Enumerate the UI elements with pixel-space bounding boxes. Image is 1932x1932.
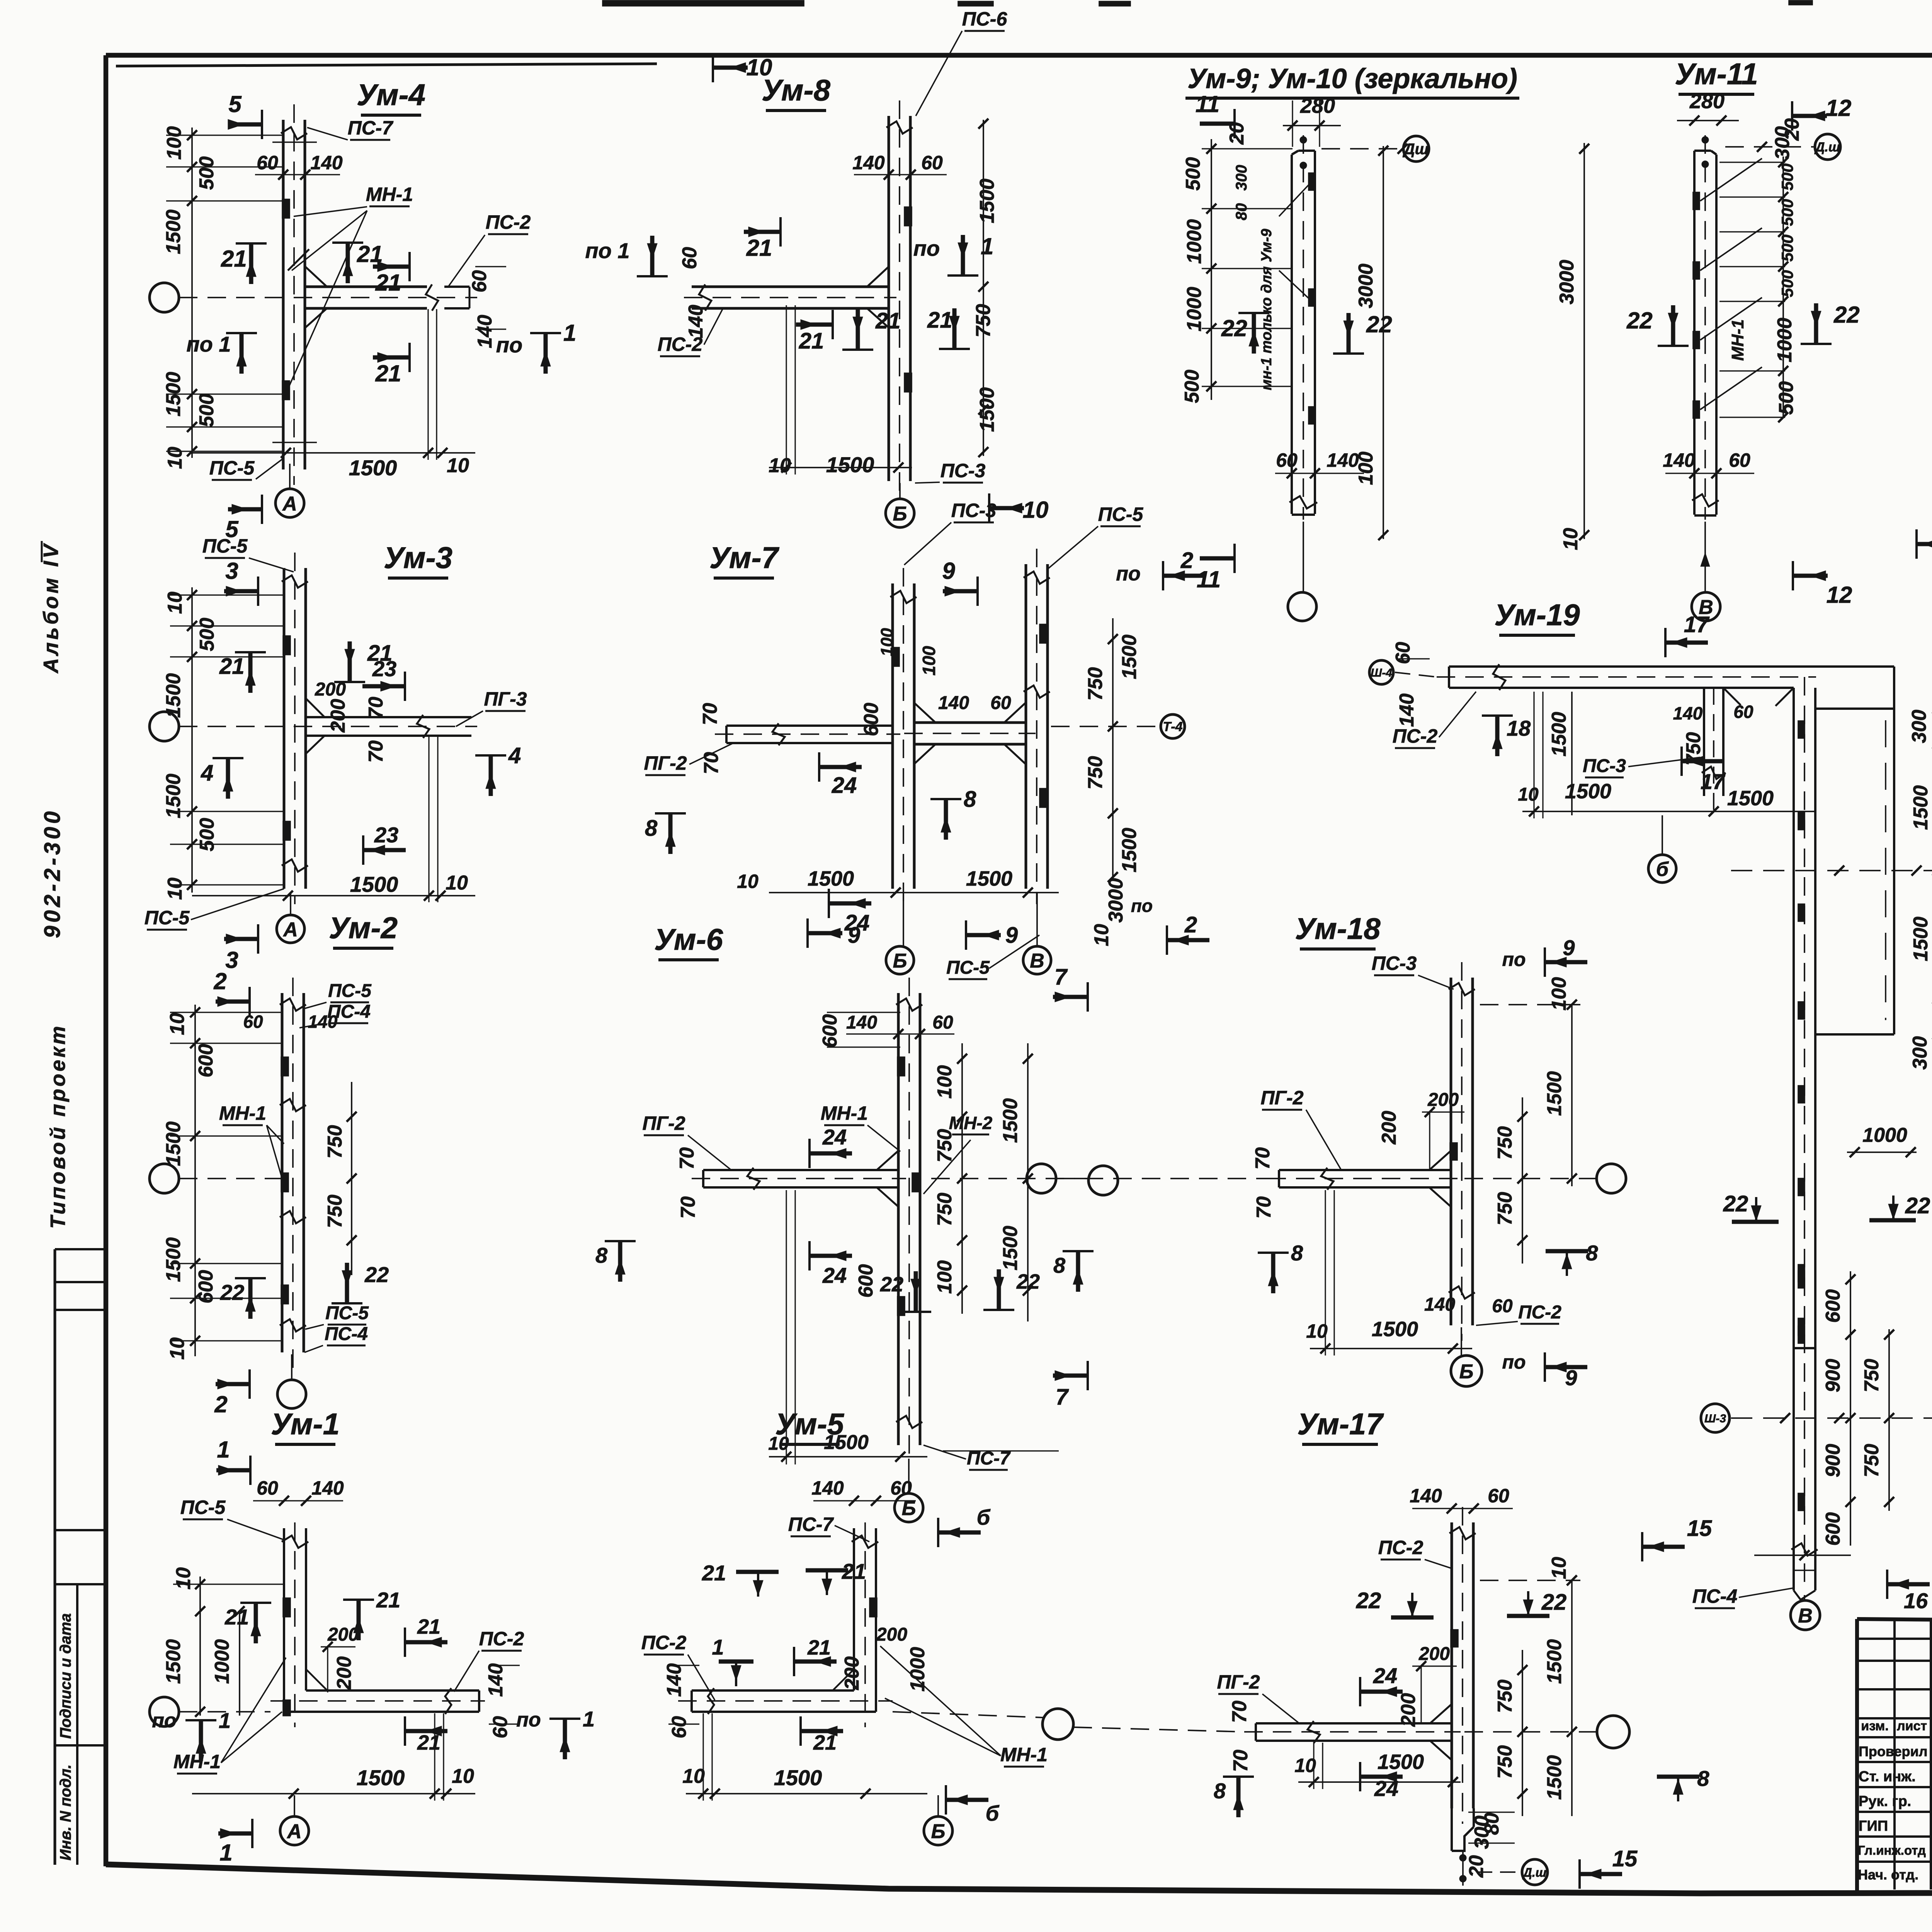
svg-text:500: 500 <box>1778 235 1796 262</box>
svg-text:10: 10 <box>172 1567 195 1590</box>
Ум-1 axis circle А <box>280 1816 309 1845</box>
svg-text:60: 60 <box>921 152 943 173</box>
Ум-5 horizontal wall <box>692 1711 876 1713</box>
Ум-5 axis circle Б <box>924 1816 952 1845</box>
svg-text:11: 11 <box>1197 566 1221 592</box>
svg-text:750: 750 <box>1494 1126 1516 1160</box>
svg-text:1: 1 <box>219 1708 231 1733</box>
svg-text:20: 20 <box>1226 122 1248 145</box>
svg-text:Б: Б <box>893 950 907 972</box>
Ум-9 wall bottom stub <box>1291 495 1293 514</box>
Ум-8 axis circle Б <box>886 499 914 527</box>
Ум-7 right dims <box>1112 618 1114 881</box>
Ум-2 mark 2 top <box>216 1000 250 1004</box>
Ум-1 axis circle left <box>150 1697 179 1726</box>
svg-text:ПГ-3: ПГ-3 <box>484 688 527 710</box>
svg-text:24: 24 <box>822 1125 847 1149</box>
Ум-1 horizontal wall <box>284 1711 479 1713</box>
svg-text:10: 10 <box>447 454 469 477</box>
svg-text:60: 60 <box>1276 449 1298 471</box>
svg-text:1500: 1500 <box>357 1765 405 1790</box>
Ум-5 mark б bottom <box>945 1785 947 1815</box>
svg-text:70: 70 <box>700 752 723 774</box>
Ум-11 right dim chain <box>1782 156 1784 417</box>
Ум-6 mark 9 top <box>966 933 1001 937</box>
svg-text:24: 24 <box>1373 1663 1397 1688</box>
Ум-8 section mark 10 top <box>713 66 748 70</box>
svg-text:ПС-2: ПС-2 <box>641 1632 687 1653</box>
svg-text:2: 2 <box>1184 912 1197 937</box>
svg-text:8: 8 <box>1586 1241 1598 1265</box>
svg-text:В: В <box>1030 950 1044 972</box>
svg-text:7: 7 <box>1056 1384 1069 1410</box>
svg-text:1500: 1500 <box>162 1121 185 1166</box>
Ум-17 marks 8 <box>1236 1777 1241 1817</box>
Ум-7 cross wall <box>914 721 1026 724</box>
svg-text:140: 140 <box>1424 1294 1455 1315</box>
svg-text:8: 8 <box>595 1243 608 1267</box>
svg-text:21: 21 <box>842 1559 866 1583</box>
svg-text:21: 21 <box>219 654 245 679</box>
svg-text:А: А <box>282 918 298 941</box>
svg-text:22: 22 <box>1221 315 1247 341</box>
svg-text:10: 10 <box>1294 1755 1316 1776</box>
svg-text:по: по <box>1502 949 1526 970</box>
svg-text:500: 500 <box>1778 163 1796 190</box>
Ум-19 bottom dim line <box>1754 1554 1851 1556</box>
svg-text:16: 16 <box>1904 1588 1928 1613</box>
svg-text:А: А <box>282 493 297 515</box>
Ум-9 axis circle Дш <box>1403 136 1429 162</box>
svg-text:Ум-19: Ум-19 <box>1494 598 1580 632</box>
Ум-18 vertical wall <box>1450 978 1452 1325</box>
Ум-11 mark 12 top <box>1792 114 1827 118</box>
Ум-19 wall corner right end <box>1893 667 1895 709</box>
svg-text:3000: 3000 <box>1355 264 1377 308</box>
svg-text:10: 10 <box>446 872 468 894</box>
svg-text:1500: 1500 <box>350 872 398 896</box>
svg-text:500: 500 <box>1778 270 1796 297</box>
Ум-19 mark 15 <box>1641 1532 1643 1561</box>
svg-text:200: 200 <box>876 1624 907 1645</box>
svg-text:1500: 1500 <box>349 456 397 480</box>
Ум-17 right dim chain <box>1522 1650 1523 1816</box>
svg-text:1: 1 <box>583 1707 595 1731</box>
svg-text:1500: 1500 <box>966 867 1012 890</box>
svg-text:1000: 1000 <box>1862 1124 1907 1146</box>
svg-text:750: 750 <box>324 1125 346 1159</box>
Ум-4 axis circle <box>150 283 179 312</box>
Ум-7 left wall <box>891 583 894 889</box>
svg-text:ПС-6: ПС-6 <box>962 8 1008 30</box>
svg-text:Ш-4: Ш-4 <box>1371 667 1392 679</box>
svg-text:100: 100 <box>1548 977 1570 1011</box>
svg-text:60: 60 <box>1729 449 1750 471</box>
svg-text:4: 4 <box>201 760 213 786</box>
svg-text:80: 80 <box>1233 203 1250 221</box>
svg-text:750: 750 <box>972 304 995 338</box>
svg-text:1500: 1500 <box>162 1237 185 1282</box>
svg-text:А: А <box>286 1820 302 1843</box>
svg-text:9: 9 <box>1565 1366 1577 1390</box>
Ум-9 mark 11 top <box>1200 122 1235 126</box>
svg-text:70: 70 <box>676 1147 698 1170</box>
svg-text:ПС-2: ПС-2 <box>1518 1302 1561 1323</box>
svg-text:600: 600 <box>1822 1512 1844 1546</box>
Ум-19 top horizontal wall <box>1449 665 1894 668</box>
Ум-18 bottom labels <box>1310 1348 1472 1349</box>
Ум-4 section mark 5 bottom <box>228 507 262 512</box>
svg-text:Б: Б <box>931 1820 946 1843</box>
scan smudges top edge <box>603 1 804 6</box>
Ум-2 axis circle bottom <box>277 1380 306 1408</box>
svg-text:ПС-2: ПС-2 <box>1378 1537 1423 1558</box>
svg-text:140: 140 <box>852 152 885 173</box>
svg-text:1500: 1500 <box>999 1098 1022 1143</box>
svg-text:8: 8 <box>1697 1766 1709 1791</box>
svg-text:1500: 1500 <box>1118 634 1141 679</box>
Ум-19 axis circle Ш-3 <box>1701 1404 1730 1432</box>
svg-text:300: 300 <box>1771 126 1794 160</box>
Ум-3 mark 3 top <box>224 589 258 594</box>
Ум-1 bottom dim <box>192 1793 475 1794</box>
sheet bottom border <box>106 1864 1932 1893</box>
Ум-9 mark 11 bottom <box>1200 556 1235 561</box>
Ум-11 section marks 22 <box>1671 305 1675 346</box>
svg-text:ПС-7: ПС-7 <box>348 117 394 139</box>
svg-text:Ум-18: Ум-18 <box>1295 912 1381 946</box>
svg-text:Дш: Дш <box>1403 141 1429 158</box>
svg-text:140: 140 <box>811 1477 844 1499</box>
svg-text:750: 750 <box>1861 1444 1883 1478</box>
Ум-4 section marks 21 <box>249 243 253 284</box>
svg-text:21: 21 <box>702 1561 726 1585</box>
Ум-19 lower dims <box>1850 1271 1851 1546</box>
Ум-18 dim 1500 right <box>1571 1005 1573 1186</box>
svg-text:600: 600 <box>855 1264 877 1298</box>
svg-text:1000: 1000 <box>1183 287 1206 332</box>
svg-text:ПС-4: ПС-4 <box>325 1324 368 1344</box>
svg-text:21: 21 <box>799 328 824 354</box>
svg-text:500: 500 <box>1775 381 1798 415</box>
svg-text:200: 200 <box>1397 1693 1420 1727</box>
Ум-11 mark 12 bottom <box>1793 574 1828 578</box>
svg-text:Ум-6: Ум-6 <box>654 922 723 956</box>
svg-text:70: 70 <box>1230 1750 1252 1772</box>
svg-text:10: 10 <box>769 454 791 477</box>
Ум-2 vertical wall <box>281 993 284 1352</box>
svg-text:7: 7 <box>1054 964 1068 990</box>
svg-text:ПС-5: ПС-5 <box>946 957 990 978</box>
svg-text:ПС-3: ПС-3 <box>940 460 986 481</box>
svg-text:по 1: по 1 <box>585 238 629 263</box>
Ум-17 branch thin bar ПГ-2 <box>1256 1722 1452 1725</box>
svg-text:МН-1: МН-1 <box>1000 1744 1048 1765</box>
svg-text:10: 10 <box>1548 1557 1570 1579</box>
svg-text:22: 22 <box>220 1280 244 1304</box>
sheet top border <box>106 53 1932 58</box>
svg-text:140: 140 <box>1663 449 1695 471</box>
Ум-6 bottom portion <box>943 1450 1059 1451</box>
svg-text:21: 21 <box>746 235 772 261</box>
svg-text:9: 9 <box>848 923 860 948</box>
svg-text:60: 60 <box>468 270 491 293</box>
svg-text:МН-1: МН-1 <box>1728 319 1747 361</box>
svg-text:21: 21 <box>375 361 401 386</box>
svg-text:ПС-3: ПС-3 <box>951 500 997 521</box>
svg-text:21: 21 <box>376 1588 400 1612</box>
svg-text:21: 21 <box>221 246 247 272</box>
svg-text:1000: 1000 <box>1774 318 1796 362</box>
svg-text:1500: 1500 <box>1118 828 1141 872</box>
svg-text:ПС-4: ПС-4 <box>1692 1585 1738 1607</box>
Ум-11 hatch leaders <box>1700 158 1762 201</box>
svg-text:б: б <box>986 1801 1000 1825</box>
svg-text:ПС-2: ПС-2 <box>1393 725 1438 747</box>
svg-text:10: 10 <box>1518 784 1539 805</box>
svg-text:22: 22 <box>1541 1590 1567 1615</box>
Ум-17 marks 22 <box>1391 1616 1434 1620</box>
svg-text:60: 60 <box>257 152 278 173</box>
Ум-18 right dim chain <box>1522 1097 1523 1264</box>
svg-text:1000: 1000 <box>906 1647 929 1692</box>
svg-text:500: 500 <box>196 156 218 190</box>
svg-text:1000: 1000 <box>1183 219 1206 264</box>
Ум-18 axis circles <box>1027 1164 1056 1193</box>
svg-text:300: 300 <box>1908 710 1930 743</box>
svg-text:по: по <box>913 236 940 260</box>
svg-text:21: 21 <box>813 1731 837 1754</box>
Ум-2 mark 2 bottom <box>216 1382 250 1386</box>
svg-text:ПС-3: ПС-3 <box>1583 756 1626 776</box>
svg-text:60: 60 <box>1488 1485 1509 1507</box>
svg-text:1500: 1500 <box>162 372 185 417</box>
Ум-7 mark 2 bottom <box>1166 925 1168 955</box>
Ум-4 axis circle А <box>276 489 304 517</box>
svg-text:9: 9 <box>1005 923 1018 948</box>
Ум-4 branch wall <box>305 286 427 288</box>
svg-text:1500: 1500 <box>1727 787 1774 810</box>
svg-text:60: 60 <box>489 1716 512 1738</box>
svg-text:750: 750 <box>1084 667 1107 701</box>
svg-text:ПС-7: ПС-7 <box>788 1514 834 1535</box>
svg-text:Т-4: Т-4 <box>1163 719 1183 734</box>
Ум-8 lower marks 21 <box>796 323 833 327</box>
svg-text:22: 22 <box>364 1262 389 1287</box>
svg-text:1: 1 <box>981 233 993 259</box>
svg-text:10: 10 <box>164 447 186 469</box>
Ум-4 section mark 5 top <box>228 122 262 127</box>
Ум-5 vertical wall <box>875 1528 877 1712</box>
svg-text:22: 22 <box>880 1273 903 1296</box>
Ум-19 axis circle Ш-4 <box>1369 660 1393 684</box>
svg-text:600: 600 <box>860 703 883 736</box>
svg-text:300: 300 <box>1233 165 1250 191</box>
title block left table rows <box>1857 1638 1932 1640</box>
svg-text:Ум-11: Ум-11 <box>1675 57 1758 91</box>
svg-text:600: 600 <box>1822 1289 1844 1323</box>
svg-text:60: 60 <box>1733 702 1753 722</box>
svg-text:1500: 1500 <box>1543 1639 1566 1684</box>
svg-text:по: по <box>516 1709 541 1731</box>
svg-text:140: 140 <box>685 305 707 338</box>
svg-text:Гл.инж.отд: Гл.инж.отд <box>1858 1843 1926 1857</box>
svg-text:22: 22 <box>1356 1588 1381 1613</box>
Ум-11 left dim 3000 <box>1583 143 1585 539</box>
svg-text:3000: 3000 <box>1556 260 1578 304</box>
svg-text:140: 140 <box>1327 449 1359 471</box>
svg-text:200: 200 <box>315 679 346 700</box>
svg-text:900: 900 <box>1822 1444 1844 1478</box>
svg-text:60: 60 <box>243 1012 263 1032</box>
svg-text:1500: 1500 <box>976 179 998 223</box>
svg-text:60: 60 <box>679 247 701 269</box>
Ум-8 branch wall <box>692 286 889 288</box>
svg-text:Проверил: Проверил <box>1859 1743 1928 1759</box>
svg-text:17: 17 <box>1701 769 1726 794</box>
svg-text:4: 4 <box>508 743 521 768</box>
svg-text:80: 80 <box>1481 1813 1503 1835</box>
Ум-7 axis circle Т-4 <box>1161 714 1185 738</box>
Ум-7 mark 9 top <box>943 589 978 594</box>
Ум-6 vertical wall <box>897 993 900 1445</box>
svg-text:24: 24 <box>832 773 857 798</box>
svg-text:500: 500 <box>196 818 218 852</box>
Ум-4 vertical wall <box>282 120 285 469</box>
Ум-4 bottom dimension <box>192 452 475 454</box>
Ум-3 left dim chain <box>191 587 193 893</box>
svg-text:140: 140 <box>311 1477 344 1499</box>
svg-text:100: 100 <box>878 628 896 656</box>
svg-text:22: 22 <box>1626 308 1653 333</box>
svg-text:70: 70 <box>1253 1196 1275 1219</box>
Ум-2 axis circle left <box>150 1164 179 1193</box>
svg-text:ПС-5: ПС-5 <box>1098 503 1144 525</box>
Ум-9 section marks 22 <box>1252 313 1256 354</box>
Ум-2 left dim chain <box>194 1005 196 1356</box>
svg-text:1500: 1500 <box>976 387 998 432</box>
Ум-8 section mark 10 bottom <box>989 506 1024 510</box>
Ум-9 wall bar <box>1291 182 1293 495</box>
svg-text:70: 70 <box>699 703 721 725</box>
Ум-1 vertical wall <box>283 1528 285 1712</box>
Ум-11 axis circle В <box>1692 592 1720 621</box>
svg-text:ПС-2: ПС-2 <box>479 1628 524 1650</box>
Ум-19 section 22 marks <box>1732 1220 1779 1224</box>
svg-text:ПГ-2: ПГ-2 <box>642 1112 685 1134</box>
Ум-19 bottom dim of stub <box>1522 811 1816 812</box>
svg-text:750: 750 <box>934 1129 956 1163</box>
svg-text:10: 10 <box>166 1013 189 1035</box>
svg-text:500: 500 <box>1182 157 1204 191</box>
svg-text:500: 500 <box>1181 370 1203 403</box>
svg-text:100: 100 <box>163 126 185 160</box>
Ум-17 axis circle Дш <box>1522 1859 1548 1885</box>
svg-text:10: 10 <box>1560 528 1582 550</box>
svg-text:по: по <box>1502 1351 1526 1373</box>
svg-text:3000: 3000 <box>1105 878 1127 923</box>
Ум-6 axis circle right <box>1088 1166 1118 1195</box>
svg-text:б: б <box>977 1505 991 1529</box>
Ум-6 marks 22 bottom <box>914 1271 918 1312</box>
title block outer frame <box>1855 1619 1859 1891</box>
svg-text:200: 200 <box>1427 1090 1459 1110</box>
svg-text:по: по <box>1131 896 1153 916</box>
svg-text:МН-1: МН-1 <box>173 1751 221 1772</box>
svg-text:ГИП: ГИП <box>1859 1818 1888 1834</box>
svg-text:200: 200 <box>841 1656 863 1690</box>
svg-text:60: 60 <box>990 693 1011 713</box>
svg-text:750: 750 <box>1861 1359 1883 1393</box>
Ум-19 wall marks МН-1 7x1000 <box>1798 721 1804 738</box>
svg-text:24: 24 <box>1374 1776 1398 1801</box>
svg-text:10: 10 <box>747 54 772 80</box>
svg-text:21: 21 <box>875 308 901 333</box>
Ум-19 mark 18 up left <box>1495 716 1500 756</box>
svg-text:70: 70 <box>365 697 387 719</box>
svg-text:23: 23 <box>374 823 398 847</box>
sheet left border <box>104 55 109 1866</box>
svg-text:10: 10 <box>452 1765 474 1787</box>
svg-text:ПС-5: ПС-5 <box>202 535 248 557</box>
Ум-11 axis circle Дш <box>1815 134 1840 160</box>
svg-text:750: 750 <box>1084 756 1107 790</box>
Ум-19 axis circle б <box>1648 855 1676 883</box>
Ум-19 axis circle В <box>1791 1600 1820 1630</box>
svg-text:1500: 1500 <box>808 867 854 890</box>
title block left table columns <box>1893 1619 1896 1889</box>
svg-text:70: 70 <box>365 740 387 763</box>
svg-text:21: 21 <box>417 1731 440 1754</box>
svg-text:1500: 1500 <box>1910 785 1932 830</box>
svg-text:18: 18 <box>1507 716 1531 740</box>
svg-text:ПС-2: ПС-2 <box>486 211 531 233</box>
Ум-3 axis circle left <box>150 712 179 741</box>
svg-text:8: 8 <box>645 816 658 841</box>
svg-text:200: 200 <box>333 1656 355 1690</box>
Ум-3 axis circle А bottom <box>277 915 304 943</box>
svg-text:Ст. инж.: Ст. инж. <box>1859 1769 1916 1785</box>
svg-text:200: 200 <box>1418 1644 1450 1664</box>
svg-text:1500: 1500 <box>162 673 185 718</box>
svg-text:280: 280 <box>1689 90 1725 113</box>
svg-text:мн-1 только для Ум-9: мн-1 только для Ум-9 <box>1259 229 1275 390</box>
svg-text:140: 140 <box>485 1663 507 1697</box>
svg-text:21: 21 <box>807 1636 831 1659</box>
svg-text:Ум-7: Ум-7 <box>709 541 780 575</box>
svg-text:24: 24 <box>822 1263 847 1287</box>
svg-text:100: 100 <box>934 1260 956 1294</box>
Ум-19 inner stub ПС-3 <box>1703 688 1705 796</box>
Ум-11 wall bottom stub <box>1692 494 1719 507</box>
svg-text:1: 1 <box>712 1635 724 1659</box>
svg-text:22: 22 <box>1723 1191 1748 1216</box>
svg-text:8: 8 <box>1214 1779 1226 1803</box>
svg-text:ПС-5: ПС-5 <box>328 981 372 1001</box>
Ум-5 mark 21 bottom <box>801 1729 843 1733</box>
Ум-5 marks 21 top <box>736 1570 779 1574</box>
svg-text:21: 21 <box>417 1615 440 1638</box>
svg-text:Рук. гр.: Рук. гр. <box>1859 1793 1911 1810</box>
Ум-3 mark 3 bottom <box>224 937 258 941</box>
svg-text:140: 140 <box>308 1012 338 1032</box>
Ум-17 bottom dim <box>1298 1781 1461 1783</box>
Ум-7 bottom dims <box>769 892 1059 893</box>
Ум-19 mark 17 bottom <box>1680 747 1683 776</box>
svg-text:140: 140 <box>1673 703 1703 723</box>
Ум-19 lower wall marks <box>1798 1271 1804 1288</box>
Ум-1 mark 1 top <box>216 1468 250 1473</box>
